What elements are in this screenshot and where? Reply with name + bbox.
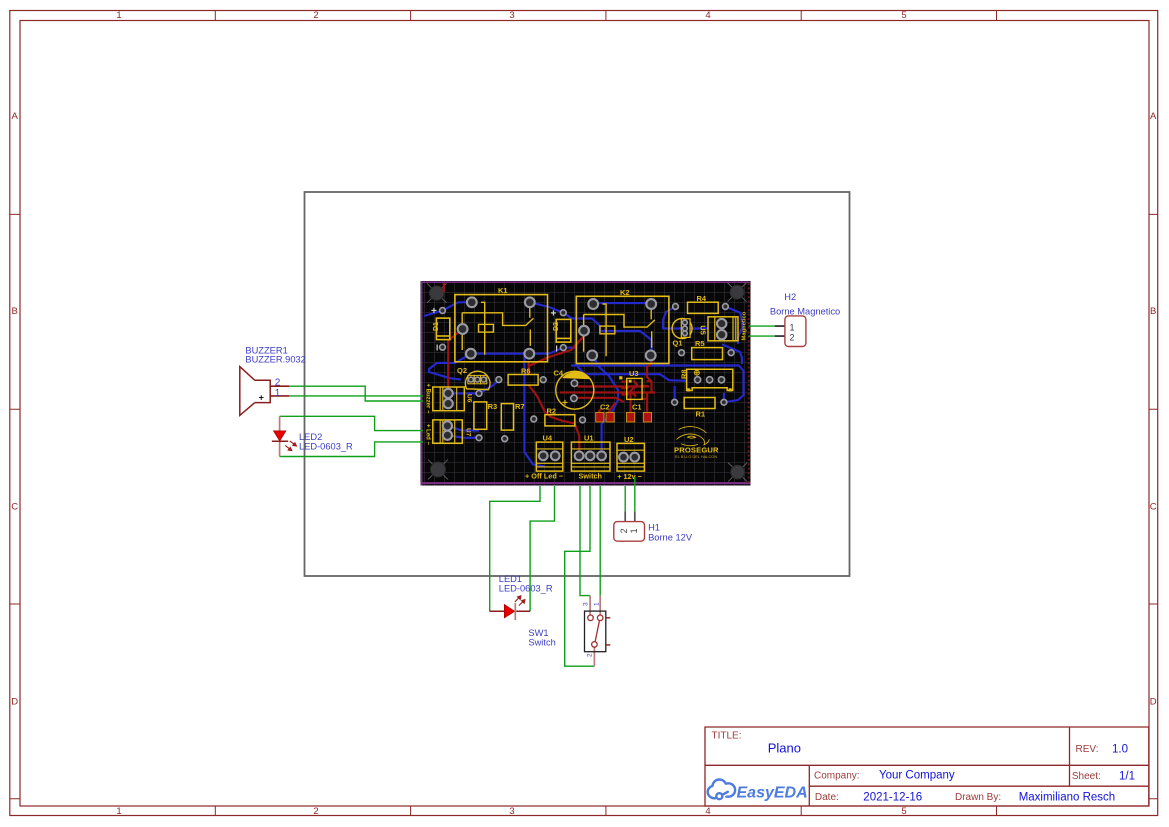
svg-text:Drawn By:: Drawn By: (955, 792, 1001, 803)
svg-text:+: + (259, 393, 264, 403)
wire h1 pin2 (624, 486, 626, 511)
svg-text:U4: U4 (543, 434, 553, 443)
diode D2 (556, 319, 571, 342)
resistor R5 (692, 348, 723, 360)
svg-text:K1: K1 (498, 286, 508, 295)
svg-text:U6: U6 (466, 394, 473, 403)
terminal U2 (617, 443, 644, 471)
svg-text:2: 2 (619, 528, 629, 533)
svg-text:+: + (551, 309, 557, 320)
wire h2 pin1 (749, 325, 775, 327)
svg-text:B: B (1150, 306, 1156, 317)
switch SW1 symbol (590, 596, 600, 667)
wire led1 anode (490, 486, 540, 611)
ic U3 (627, 378, 642, 399)
svg-text:D2: D2 (553, 322, 560, 331)
pcb corner hole top-left (427, 283, 446, 302)
svg-text:4: 4 (705, 10, 710, 21)
svg-text:U5: U5 (699, 325, 708, 335)
terminal U1 (571, 442, 610, 471)
wire buzzer pin1 to board (289, 395, 423, 397)
svg-text:R2: R2 (547, 407, 557, 416)
svg-text:LED-0603_R: LED-0603_R (499, 584, 553, 594)
svg-text:C4: C4 (554, 369, 564, 378)
resistor R1 (684, 398, 715, 409)
svg-text:3: 3 (509, 10, 514, 21)
title block (705, 727, 1149, 806)
svg-text:EasyEDA: EasyEDA (737, 785, 808, 802)
pcb corner hole bottom-left (428, 460, 448, 480)
prosegur logo (677, 427, 710, 446)
svg-text:1: 1 (790, 322, 795, 332)
wire led2 cathode to board (280, 442, 423, 457)
diode D1 (436, 318, 449, 340)
svg-text:U7: U7 (465, 428, 472, 437)
svg-text:R4: R4 (697, 294, 707, 303)
svg-text:EL B.U.G DEL HALCON: EL B.U.G DEL HALCON (675, 454, 717, 459)
svg-text:R6: R6 (521, 367, 531, 376)
svg-text:LED1: LED1 (499, 574, 522, 584)
svg-text:1/1: 1/1 (1119, 770, 1135, 782)
svg-text:1: 1 (116, 806, 121, 817)
svg-text:1: 1 (594, 602, 601, 606)
resistor R2 (545, 415, 575, 426)
resistor R7 (501, 404, 513, 431)
svg-text:TITLE:: TITLE: (712, 731, 742, 742)
resistor network R8 (687, 369, 733, 390)
svg-text:B: B (12, 306, 18, 317)
svg-text:D1: D1 (433, 322, 440, 331)
svg-text:REV:: REV: (1076, 744, 1099, 755)
terminal U7 (433, 420, 463, 443)
svg-text:1: 1 (275, 388, 281, 399)
relay K2 (576, 288, 669, 364)
svg-text:2: 2 (313, 10, 318, 21)
svg-text:U2: U2 (624, 435, 634, 444)
buzzer BUZZER1 symbol (240, 367, 289, 416)
svg-text:BUZZER.9032: BUZZER.9032 (245, 355, 305, 365)
svg-text:R5: R5 (695, 339, 705, 348)
connector H2 (775, 326, 785, 336)
sheet rectangle (305, 192, 850, 576)
led LED1 symbol (490, 610, 530, 612)
svg-text:U3: U3 (629, 369, 639, 378)
svg-text:1: 1 (629, 528, 639, 533)
svg-text:Date:: Date: (815, 792, 839, 803)
svg-text:Switch: Switch (579, 472, 603, 481)
svg-text:2: 2 (275, 377, 281, 388)
svg-text:Borne 12V: Borne 12V (648, 532, 693, 542)
svg-text:D: D (1150, 697, 1157, 708)
svg-text:H1: H1 (648, 523, 660, 533)
svg-text:Q1: Q1 (673, 339, 683, 348)
svg-text:A: A (12, 111, 19, 122)
svg-text:D: D (11, 697, 18, 708)
svg-text:Maximiliano Resch: Maximiliano Resch (1019, 791, 1116, 803)
svg-text:R3: R3 (488, 402, 498, 411)
svg-text:Company:: Company: (814, 770, 860, 781)
pcb vias (496, 377, 502, 383)
capacitor C2 (596, 412, 604, 422)
svg-text:I: I (556, 345, 558, 354)
wire sw1 pin1 (599, 486, 601, 596)
svg-text:3: 3 (583, 602, 590, 606)
svg-text:R7: R7 (515, 402, 525, 411)
transistor Q1 (672, 319, 692, 339)
svg-text:C: C (1150, 502, 1157, 513)
svg-text:5: 5 (901, 10, 906, 21)
relay K1 (455, 286, 548, 362)
wire led1 cathode (530, 486, 554, 611)
svg-text:1: 1 (116, 10, 121, 21)
pcb corner hole top-right (728, 283, 747, 302)
resistor R4 (688, 302, 719, 313)
svg-text:I: I (436, 344, 438, 353)
svg-text:2: 2 (790, 333, 795, 343)
led LED2 symbol (279, 416, 281, 456)
svg-text:U1: U1 (584, 434, 594, 443)
svg-text:2: 2 (313, 806, 318, 817)
svg-text:H2: H2 (784, 292, 796, 302)
transistor Q2 (465, 371, 490, 389)
svg-text:3: 3 (509, 806, 514, 817)
EasyEDA logo (708, 780, 735, 800)
connector H1 (625, 511, 635, 521)
wire buzzer pin2 to board (289, 386, 423, 401)
svg-text:1.0: 1.0 (1112, 743, 1128, 755)
PCB image (421, 281, 751, 486)
wire h1 pin1 (634, 477, 636, 511)
terminal U4 (536, 442, 563, 471)
svg-text:K2: K2 (620, 288, 630, 297)
svg-text:+ 12v −: + 12v − (617, 472, 642, 481)
svg-text:4: 4 (705, 806, 710, 817)
wire h2 pin2 (749, 335, 775, 337)
svg-text:Magnetico: Magnetico (741, 311, 747, 340)
svg-text:+: + (562, 398, 568, 409)
terminal U5 (708, 317, 738, 341)
svg-text:R1: R1 (696, 410, 706, 419)
svg-text:2: 2 (587, 653, 594, 657)
svg-text:Sheet:: Sheet: (1072, 771, 1101, 782)
svg-text:2021-12-16: 2021-12-16 (863, 791, 922, 803)
svg-text:+ Buzzer −: + Buzzer − (424, 383, 430, 414)
wire led2 anode to board (280, 416, 423, 430)
svg-text:+ Off Led −: + Off Led − (525, 472, 563, 481)
svg-text:R8: R8 (679, 369, 688, 379)
capacitor C4 (556, 371, 594, 409)
wire sw1 pin3 (580, 486, 590, 596)
capacitor C1 (627, 412, 635, 422)
svg-text:LED-0603_R: LED-0603_R (299, 441, 353, 451)
pcb corner hole bottom-right (728, 463, 747, 482)
svg-text:C2: C2 (600, 403, 610, 412)
pcb red traces (444, 283, 655, 456)
pcb blue traces (424, 302, 744, 466)
svg-text:C1: C1 (632, 403, 642, 412)
svg-text:Plano: Plano (768, 740, 801, 755)
wire sw1 pin2 (565, 486, 595, 666)
svg-text:+ Led −: + Led − (424, 424, 430, 446)
resistor R6 (508, 375, 538, 386)
svg-text:C: C (11, 502, 18, 513)
terminal U6 (433, 387, 465, 411)
svg-text:Your Company: Your Company (879, 770, 955, 782)
svg-text:A: A (1150, 111, 1157, 122)
svg-text:Borne Magnetico: Borne Magnetico (770, 307, 840, 317)
svg-text:5: 5 (901, 806, 906, 817)
resistor R3 (474, 402, 487, 429)
svg-text:Q2: Q2 (457, 366, 467, 375)
svg-text:+: + (431, 306, 437, 317)
svg-text:Switch: Switch (528, 637, 555, 647)
